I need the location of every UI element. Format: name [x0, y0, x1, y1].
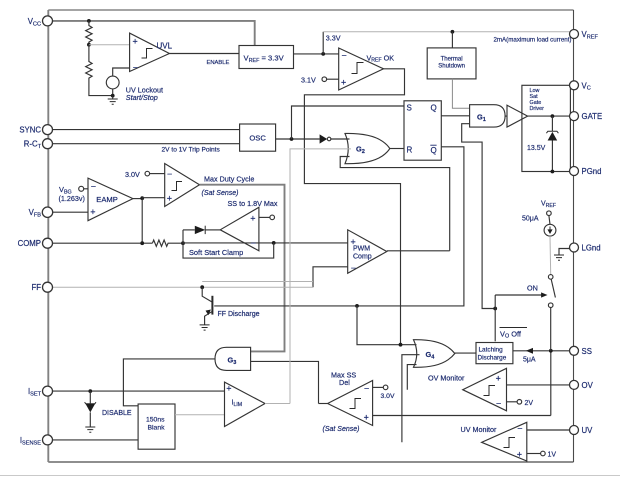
op-amp Max SS Del comparator (points left)	[328, 381, 373, 426]
terminal 3.0V (max duty threshold)	[145, 171, 150, 176]
block SR latch	[404, 101, 441, 160]
svg-text:Q: Q	[431, 104, 437, 113]
wire latching node riser to ON arrow and Latching Discharge box	[494, 295, 496, 341]
svg-text:SYNC: SYNC	[19, 126, 41, 135]
node COMP/EAMP junction	[140, 241, 144, 245]
wire VBG to EAMP - input	[84, 188, 88, 190]
node zener top junction	[551, 114, 555, 118]
resistor R1 (upper divider)	[86, 21, 92, 45]
wire Latching Discharge to SS pin with 5uA arrow	[513, 350, 574, 352]
node SS switch junction	[549, 349, 553, 353]
block VREF = 3.3V regulator	[239, 46, 294, 69]
wire soft start clamp feedback loop	[183, 230, 274, 258]
svg-text:−: −	[167, 169, 172, 179]
svg-text:Discharge: Discharge	[478, 355, 507, 362]
pin ISENSE	[43, 435, 53, 445]
wire Thermal Shutdown to G1 input (light)	[452, 79, 469, 108]
ground symbol at LGnd	[554, 255, 564, 260]
transistor Q1 FF Discharge	[200, 287, 213, 330]
wire LGnd to ground	[559, 249, 570, 256]
node soft start clamp left junction	[181, 241, 185, 245]
wire 50uA source to switch (light)	[549, 236, 552, 275]
gate G1 (AND, drives gate driver)	[470, 105, 506, 127]
svg-text:1V: 1V	[548, 452, 557, 459]
current source 50uA	[544, 216, 556, 237]
wire switch to SS line	[550, 308, 552, 351]
svg-text:+: +	[226, 384, 231, 394]
svg-text:Soft Start Clamp: Soft Start Clamp	[189, 248, 243, 257]
svg-text:−: −	[251, 238, 256, 248]
pin PGnd	[570, 167, 579, 176]
svg-text:+: +	[133, 37, 138, 47]
switch ON (soft start restart)	[548, 275, 555, 308]
pin VCC	[43, 16, 53, 26]
svg-text:+: +	[496, 374, 501, 384]
svg-text:2mA(maximum load current): 2mA(maximum load current)	[493, 37, 571, 44]
svg-text:50μA: 50μA	[522, 216, 539, 223]
node OSC output junction	[290, 137, 294, 141]
terminal VREF for 50uA source	[547, 211, 552, 216]
wire FF pin line (light)	[48, 286, 313, 288]
pin VC	[570, 81, 579, 90]
wire UV monitor output to G4	[402, 355, 420, 443]
svg-text:Start/Stop: Start/Stop	[126, 93, 158, 102]
op-amp UVL comparator	[130, 33, 173, 72]
terminal SS (open circle)	[270, 215, 275, 220]
svg-text:13.5V: 13.5V	[527, 145, 546, 152]
ground symbol below UV lockout	[108, 96, 118, 105]
resistor R2 (lower divider)	[86, 45, 113, 96]
svg-text:+: +	[250, 214, 255, 224]
wire Max SS Del - input to 3.0V terminal	[373, 386, 384, 388]
wire driver output to GATE pin	[528, 115, 574, 117]
wire PWM output	[387, 250, 450, 252]
pin VFB	[42, 207, 52, 217]
zener diode DISABLE clamp	[85, 391, 96, 432]
svg-text:2V: 2V	[525, 400, 534, 407]
svg-text:−: −	[342, 51, 347, 61]
wire 3.3V rail to VREF pin (light)	[323, 31, 571, 33]
svg-text:SS: SS	[582, 347, 592, 356]
svg-text:Blank: Blank	[148, 425, 166, 432]
wire VC pin to driver box	[570, 84, 573, 86]
wire latch Q to G1	[441, 115, 469, 117]
svg-text:LGnd: LGnd	[582, 244, 601, 253]
pin GATE	[570, 112, 579, 121]
op-amp ILIM current limit comparator	[225, 382, 266, 426]
svg-text:−: −	[364, 384, 369, 394]
pin UV	[570, 426, 579, 435]
svg-text:R: R	[407, 146, 413, 155]
svg-text:−: −	[133, 63, 138, 73]
svg-text:Del: Del	[339, 378, 350, 387]
node latching node junction	[493, 307, 497, 311]
svg-text:UV: UV	[582, 426, 594, 435]
wire 3.1V to Vref OK + input	[327, 78, 339, 80]
wire EAMP output down to COMP node	[141, 199, 143, 244]
svg-text:UVL: UVL	[157, 42, 173, 51]
svg-text:OV: OV	[582, 381, 594, 390]
wire OV pin to OV monitor + input	[507, 384, 574, 386]
wire Vref OK output path to G4 (enable rail)	[304, 69, 404, 345]
wire UVL - input to reference source	[113, 68, 130, 76]
wire UV pin to UV monitor - input	[527, 429, 574, 431]
wire ISET pin to ILIM + input	[48, 390, 224, 392]
svg-text:Shutdown: Shutdown	[438, 64, 465, 70]
node FF discharge collector junction	[200, 285, 204, 289]
wire clamp + input to SS terminal	[259, 216, 270, 218]
wire rail to Thermal Shutdown box	[451, 32, 453, 48]
zener diode 13.5V gate clamp	[546, 116, 558, 171]
svg-text:+: +	[90, 207, 95, 217]
inverter before G2	[320, 134, 331, 143]
pin FF	[43, 282, 53, 292]
svg-text:PWM: PWM	[353, 246, 370, 253]
wire latch Qbar to FF discharge base	[214, 147, 464, 306]
wire inverter to G2 top input	[331, 138, 350, 140]
svg-text:+: +	[341, 78, 346, 88]
svg-text:+: +	[517, 449, 522, 459]
op-amp OV Monitor comparator (points left)	[463, 368, 507, 411]
wire latch disable branch to G1 third input	[462, 124, 496, 309]
svg-text:EAMP: EAMP	[96, 195, 118, 204]
wire R-CT pin to OSC	[48, 143, 239, 145]
svg-text:150ns: 150ns	[146, 417, 165, 424]
label Low Sat Gate Driver	[530, 88, 545, 112]
wire ISENSE pin to 150ns Blank	[48, 439, 138, 441]
wire ILIM output (light) to G2 middle input	[265, 149, 351, 404]
svg-text:3.3V: 3.3V	[326, 34, 341, 43]
svg-text:FF Discharge: FF Discharge	[218, 311, 260, 318]
wire OV monitor output to G4	[407, 365, 416, 390]
wire G2 output to latch R	[390, 148, 404, 150]
svg-text:2V to 1V Trip Points: 2V to 1V Trip Points	[162, 147, 221, 154]
node thermal shutdown tap on rail	[451, 30, 455, 34]
wire EAMP output to Max Duty + input	[142, 197, 165, 199]
wire divider tap to UVL + input (light)	[89, 44, 130, 46]
wire ILIM line to Max SS Del output vertex	[319, 403, 328, 405]
wire source to ground node	[112, 89, 114, 96]
op-amp PWM Comp	[348, 230, 387, 273]
wire G3 output to 150ns Blank	[123, 359, 215, 406]
block 150ns Blank	[138, 404, 175, 449]
wire G1 output to driver	[505, 115, 507, 117]
svg-text:−: −	[91, 182, 96, 192]
pin R-CT	[43, 139, 53, 149]
pin COMP	[43, 238, 53, 248]
svg-text:S: S	[407, 104, 412, 113]
wire SS line to Max SS Del + input	[373, 351, 551, 416]
wire G4 output to Latching Discharge	[455, 352, 476, 354]
wire COMP line to PWM + input	[183, 242, 348, 244]
op-amp Max Duty Cycle comparator	[165, 164, 200, 207]
svg-text:(Sat Sense): (Sat Sense)	[323, 426, 360, 433]
svg-text:Gate: Gate	[530, 100, 542, 106]
node ground junction	[111, 94, 115, 98]
wire OSC output	[276, 138, 320, 140]
node EAMP output junction	[140, 196, 144, 200]
svg-text:GATE: GATE	[582, 112, 603, 121]
svg-text:UV Monitor: UV Monitor	[461, 425, 498, 434]
reference source circle (UV lockout threshold)	[106, 76, 119, 89]
pin OV	[570, 380, 579, 389]
gate G2 (OR, 3 inputs, drives R)	[345, 133, 390, 163]
pin ISET	[43, 386, 53, 396]
wire PGnd pin to driver box	[570, 171, 573, 173]
wire PWM - input to FF ramp	[313, 267, 348, 287]
block OSC	[240, 124, 276, 151]
node VCC resistor tap junction	[87, 19, 91, 23]
wire UV monitor + input to 1V terminal	[527, 453, 541, 455]
svg-text:−: −	[496, 398, 501, 408]
block Thermal Shutdown	[427, 48, 476, 79]
diode soft start clamp	[183, 226, 220, 234]
svg-text:PGnd: PGnd	[582, 167, 602, 176]
svg-text:−: −	[351, 263, 356, 273]
wire COMP pin line	[48, 242, 152, 244]
wire VREF block output to Vref OK comparator	[294, 53, 339, 55]
node 3.3V rail tap	[321, 52, 325, 56]
svg-text:VO Off: VO Off	[500, 329, 522, 339]
svg-text:3.0V: 3.0V	[381, 393, 395, 400]
op-amp Soft Start Clamp buffer (points left)	[220, 207, 259, 251]
gate G4 (OR, drives latching discharge)	[414, 340, 455, 368]
pin LGnd	[570, 243, 579, 252]
svg-text:Max Duty Cycle: Max Duty Cycle	[204, 175, 254, 184]
terminal 1V	[541, 451, 546, 456]
terminal 2V	[517, 400, 522, 405]
buffer driver triangle	[507, 105, 528, 127]
op-amp EAMP error amplifier	[88, 178, 133, 221]
svg-text:Latching: Latching	[479, 347, 504, 354]
wire EAMP output	[133, 198, 142, 200]
svg-text:Q: Q	[431, 146, 437, 155]
pin VREF	[570, 30, 579, 39]
wire VFB pin to EAMP + input	[48, 211, 88, 213]
wire 3.0V to Max Duty - input	[150, 173, 165, 175]
svg-text:3.1V: 3.1V	[301, 76, 316, 85]
svg-text:Sat: Sat	[530, 94, 539, 100]
svg-text:+: +	[364, 413, 369, 423]
svg-text:3.0V: 3.0V	[125, 170, 140, 179]
svg-text:(1.263v): (1.263v)	[59, 194, 85, 203]
svg-text:5μA: 5μA	[523, 356, 536, 363]
wire VCC run (thick gray) from VCC pin to VREF regulator	[48, 21, 254, 46]
svg-text:Driver: Driver	[530, 106, 545, 112]
svg-text:DISABLE: DISABLE	[102, 410, 132, 417]
svg-text:OV Monitor: OV Monitor	[428, 373, 465, 382]
terminal 3.0V (SS delay threshold)	[383, 385, 388, 390]
svg-text:COMP: COMP	[18, 239, 41, 248]
node Qbar line tap to G4	[355, 304, 359, 308]
node ISET zener junction	[88, 389, 92, 393]
svg-text:Low: Low	[530, 88, 540, 94]
wire PWM output feedback loop to G2	[340, 157, 450, 251]
pin SS	[570, 346, 579, 355]
svg-text:−: −	[517, 424, 522, 434]
op-amp Vref OK comparator	[339, 48, 395, 90]
node zener bottom junction	[551, 170, 555, 174]
block Low Sat Gate Driver enclosure	[522, 85, 571, 171]
svg-text:OSC: OSC	[249, 134, 266, 143]
svg-text:ON: ON	[527, 284, 538, 293]
terminal 3.1V	[322, 77, 327, 82]
pin SYNC	[43, 125, 53, 135]
gate G3 (AND, points left)	[215, 347, 251, 370]
wire UVL output ENABLE to VREF block	[169, 53, 239, 55]
wire OV monitor - input to 2V terminal	[507, 401, 518, 403]
block Latching Discharge	[476, 343, 513, 364]
svg-text:+: +	[167, 194, 172, 204]
node divider tap	[87, 43, 91, 47]
svg-text:ENABLE: ENABLE	[207, 60, 230, 66]
svg-text:(Sat Sense): (Sat Sense)	[202, 190, 239, 197]
svg-text:SS to 1.8V Max: SS to 1.8V Max	[228, 199, 278, 208]
wire OSC to latch S input	[292, 106, 405, 139]
op-amp UV Monitor comparator (points left)	[482, 422, 527, 461]
resistor on COMP line	[152, 240, 183, 246]
node soft start clamp right junction	[272, 241, 276, 245]
wire SYNC pin to OSC	[48, 129, 239, 131]
wire 3.3V rail riser	[322, 32, 324, 54]
wire Max Duty output to G3 (thick gray)	[200, 185, 285, 352]
svg-text:Thermal: Thermal	[441, 57, 463, 63]
terminal VBG input	[79, 186, 84, 191]
wire 150ns Blank output to ILIM - input (light)	[175, 414, 225, 416]
node G4 enable junction	[399, 343, 403, 347]
wire Qbar tap down to G4 input	[357, 306, 417, 345]
svg-text:Comp: Comp	[353, 253, 372, 260]
wire G3 lower input from Max SS Del output	[251, 361, 319, 403]
wire FF auxiliary line (light)	[202, 281, 313, 283]
svg-text:FF: FF	[31, 283, 41, 292]
